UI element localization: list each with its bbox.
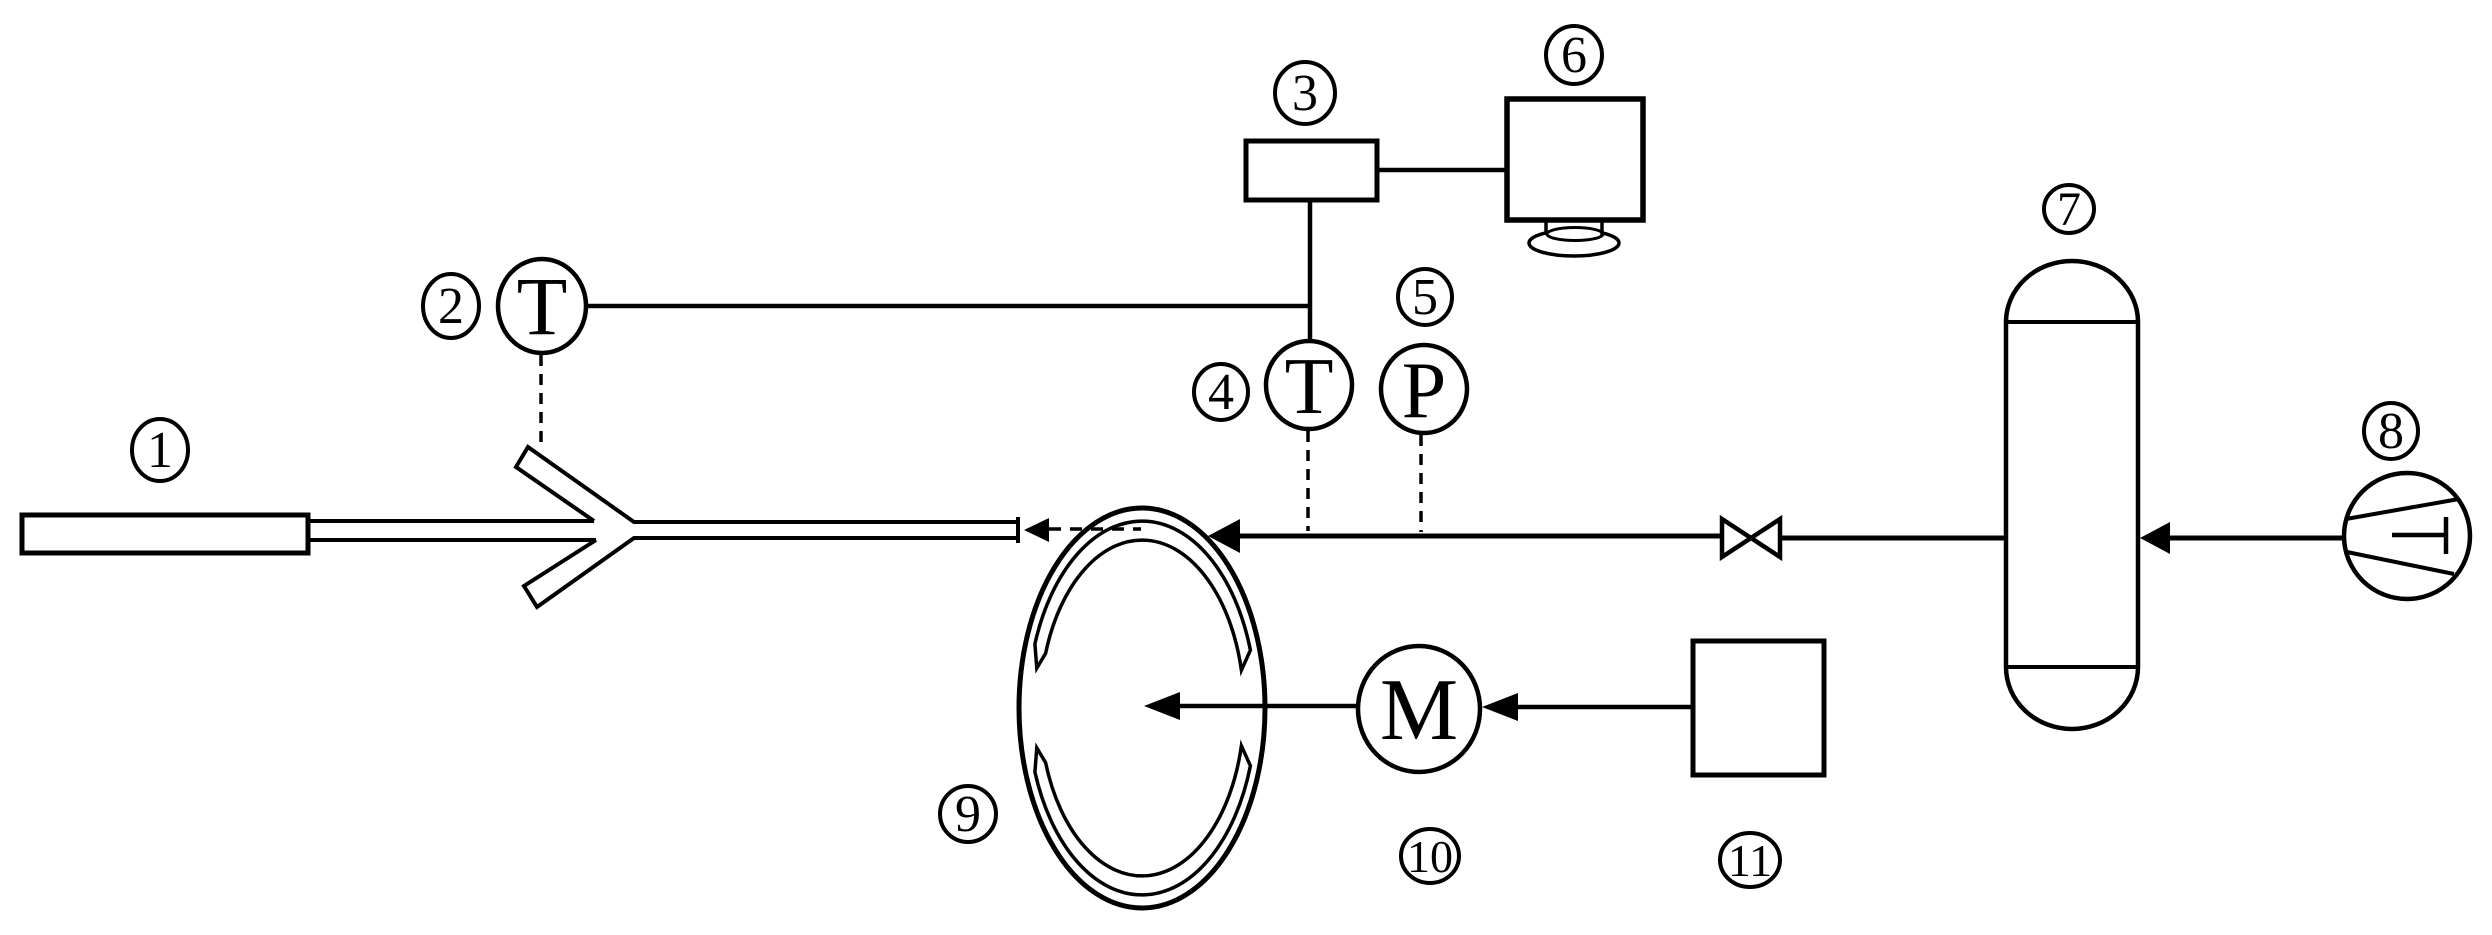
svg-text:9: 9 bbox=[955, 786, 981, 843]
power box 11 bbox=[1693, 641, 1824, 775]
camera 6 body bbox=[1507, 99, 1643, 220]
label 1 bbox=[132, 419, 188, 481]
svg-text:1: 1 bbox=[147, 422, 173, 479]
motor shaft line bbox=[1180, 704, 1358, 709]
wire box3 down to T4 bbox=[1308, 200, 1313, 342]
camera 6 neck bbox=[1546, 220, 1602, 235]
valve bbox=[1722, 519, 1780, 557]
arrowhead into vessel bbox=[2140, 522, 2170, 554]
dashed probe line from T4 bbox=[1306, 431, 1310, 531]
wire: thin tube upper wall bbox=[306, 519, 594, 523]
label 3 bbox=[1275, 62, 1335, 124]
sensor circle T 4 bbox=[1266, 341, 1352, 431]
arrowhead into probe tube bbox=[1024, 518, 1049, 542]
svg-text:7: 7 bbox=[2057, 183, 2081, 236]
svg-text:11: 11 bbox=[1728, 835, 1772, 886]
signal wire T2 to junction box bbox=[585, 304, 1310, 309]
sensor circle T 2 bbox=[498, 259, 586, 353]
label 11 bbox=[1720, 833, 1780, 887]
label 7 bbox=[2044, 183, 2094, 236]
main gas line wheel to valve bbox=[1240, 534, 1722, 539]
wheel 9 lower slot band bbox=[1035, 746, 1251, 895]
wire power box to motor bbox=[1518, 705, 1693, 710]
svg-text:T: T bbox=[1285, 343, 1334, 431]
wheel 9 upper slot band bbox=[1035, 521, 1251, 670]
main gas line valve to vessel bbox=[1780, 536, 2006, 541]
sensor circle P 5 bbox=[1381, 345, 1467, 435]
Y-junction nozzle upper arm bbox=[516, 447, 1018, 522]
dashed flow line into wheel bbox=[1049, 527, 1141, 531]
camera 6 collar ellipse bbox=[1547, 228, 1603, 241]
gas line pump to vessel bbox=[2170, 536, 2344, 541]
camera 6 lens base ellipse bbox=[1529, 230, 1619, 256]
svg-text:M: M bbox=[1380, 662, 1458, 759]
label 10 bbox=[1401, 829, 1459, 883]
vessel 7 body bbox=[2006, 261, 2138, 729]
label 9 bbox=[940, 786, 996, 843]
svg-text:T: T bbox=[517, 260, 568, 352]
svg-text:6: 6 bbox=[1561, 27, 1587, 84]
label 6 bbox=[1546, 26, 1602, 84]
svg-text:P: P bbox=[1402, 347, 1447, 435]
label 5 bbox=[1398, 269, 1452, 326]
main gas line arrowhead at wheel bbox=[1208, 519, 1240, 553]
svg-text:10: 10 bbox=[1407, 831, 1453, 882]
svg-text:8: 8 bbox=[2378, 403, 2404, 460]
motor M 10 bbox=[1358, 646, 1480, 772]
dashed probe line from T2 bbox=[539, 355, 543, 450]
label 2 bbox=[423, 274, 479, 338]
wire box3 to camera 6 bbox=[1377, 168, 1509, 173]
pump 8 tee bbox=[2392, 517, 2446, 554]
label 8 bbox=[2364, 403, 2418, 460]
vessel 7 weld lines bbox=[2006, 322, 2138, 667]
Y-junction nozzle lower arm bbox=[524, 538, 1018, 607]
arrowhead motor shaft into wheel bbox=[1144, 692, 1180, 720]
pump 8 vanes bbox=[2346, 499, 2459, 574]
label 4 bbox=[1194, 364, 1248, 421]
dashed probe line from P5 bbox=[1419, 435, 1423, 532]
svg-text:5: 5 bbox=[1412, 269, 1438, 326]
arrowhead into motor bbox=[1482, 693, 1518, 721]
controller box 3 bbox=[1246, 141, 1377, 200]
svg-text:3: 3 bbox=[1292, 65, 1318, 122]
wheel 9 outer rim bbox=[1019, 508, 1265, 908]
wire: thin tube lower wall bbox=[306, 538, 596, 542]
tube end cap bbox=[1016, 517, 1020, 543]
probe tube 1 bbox=[22, 515, 308, 553]
pump 8 circle bbox=[2344, 473, 2470, 599]
svg-text:2: 2 bbox=[438, 278, 464, 335]
svg-text:4: 4 bbox=[1208, 364, 1234, 421]
